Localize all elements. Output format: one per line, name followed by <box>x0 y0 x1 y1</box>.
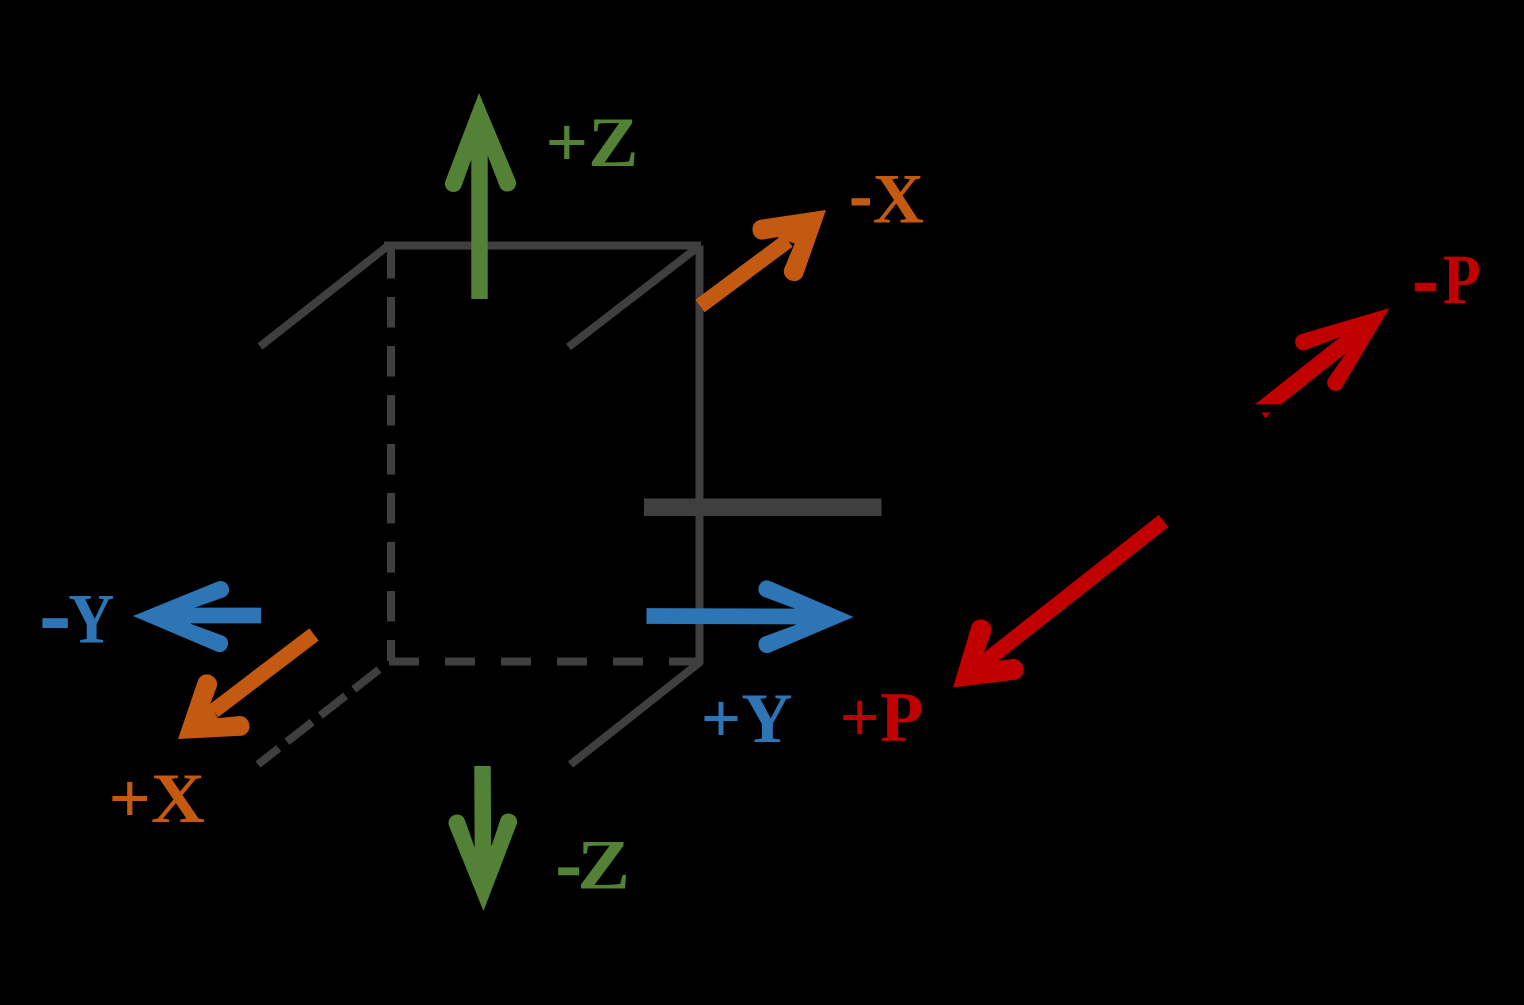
arrow +X <box>214 635 315 712</box>
svg-text:X: X <box>873 161 924 239</box>
arrow +P <box>987 521 1164 660</box>
wire dashed bottom-left depth diagonal <box>258 670 379 765</box>
label -Y <box>42 618 67 628</box>
wire top edge <box>384 242 701 250</box>
label -Z <box>558 867 579 875</box>
wire top-left depth diagonal <box>260 247 387 347</box>
arrow -Z <box>474 766 491 865</box>
arrow -P shaft <box>1255 337 1349 405</box>
wire top-right depth diagonal <box>569 247 699 347</box>
solar panel bar <box>644 499 882 517</box>
label -P <box>1415 283 1436 292</box>
label -X <box>852 198 871 205</box>
arrow +Y <box>647 608 806 624</box>
svg-text:P: P <box>1443 242 1481 320</box>
svg-text:+P: +P <box>840 679 924 757</box>
svg-text:+Y: +Y <box>701 680 793 758</box>
svg-text:+Z: +Z <box>545 104 638 182</box>
arrow +Z <box>471 140 488 299</box>
arrow -P head <box>1295 308 1389 391</box>
wire dashed left vertical edge <box>387 248 395 661</box>
wire right vertical edge <box>696 246 704 665</box>
svg-text:Y: Y <box>68 581 114 659</box>
arrow -Y <box>180 608 261 624</box>
svg-text:+X: +X <box>109 760 206 838</box>
svg-text:Z: Z <box>577 827 630 905</box>
arrow -P clipped fragment <box>1262 413 1271 419</box>
wire bottom-right depth diagonal <box>571 662 701 765</box>
wire dashed bottom edge <box>389 658 700 666</box>
arrow -X <box>700 241 788 307</box>
